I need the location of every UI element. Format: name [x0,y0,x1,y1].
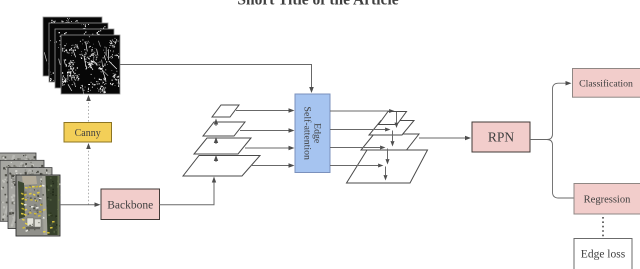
svg-text:RPN: RPN [488,130,515,145]
wire: attention box to R3 [330,146,386,150]
svg-text:Classification: Classification [579,78,633,89]
feature map R3 [361,134,419,150]
feature map L3 [194,138,251,154]
down arrow R1 to R2 [395,112,399,128]
up arrow L2 to L1 [214,119,218,127]
feature map R1 (smallest) [379,112,407,125]
wire: L1 to attention box [236,108,295,113]
Edge Self-attention box [295,94,330,173]
Regression box [574,184,640,215]
svg-text:Edge loss: Edge loss [581,249,626,261]
down arrow R4 into largest map [384,167,388,181]
Classification box [573,69,640,98]
down arrow R2 to R3 [391,131,395,147]
RPN box [472,122,530,152]
feature map R2 [369,121,414,136]
down arrow R3 to R4 [386,149,390,165]
wire: stem to Classification [553,81,572,134]
wire: right pyramid to RPN [419,136,471,140]
svg-text:Short Title of the Article: Short Title of the Article [237,0,398,9]
svg-text:Canny: Canny [75,128,101,139]
svg-text:Regression: Regression [584,195,631,206]
feature map R4 (largest) [347,150,428,183]
Canny box [64,123,112,143]
wire: Backbone to left feature pyramid [160,177,217,205]
aerial input image stack [0,153,60,236]
wire: L3 to attention box [245,146,295,150]
wire: aerial stack to Backbone [60,202,101,207]
wire: attention box to R2 [330,128,391,132]
wire: Canny to edge stack (dotted, up arrow) [86,95,91,122]
up arrow L4 to L3 [214,155,218,162]
Backbone box [101,189,160,220]
wire: attention box to R4 [330,164,384,168]
wire: L4 to attention box [251,163,295,168]
feature map L2 [203,122,245,136]
Edge loss box [574,239,632,269]
wire: edge stack to Edge Self-attention top [120,65,314,94]
edge image stack (Canny edge maps) [43,17,120,96]
feature map L1 (smallest) [212,105,239,117]
wire: L2 to attention box [240,128,295,133]
wire: attention box to R1 [330,109,395,113]
wire: trunk junction to Canny (dotted, up arrow) [86,143,91,205]
wire: RPN fan-out stem [530,134,553,145]
wire: Regression to Edge loss (dotted) [602,217,604,238]
wire: stem to Regression [553,145,574,198]
svg-text:Backbone: Backbone [107,199,153,211]
up arrow L3 to L2 [214,137,218,144]
feature map L4 (largest) [183,156,260,177]
